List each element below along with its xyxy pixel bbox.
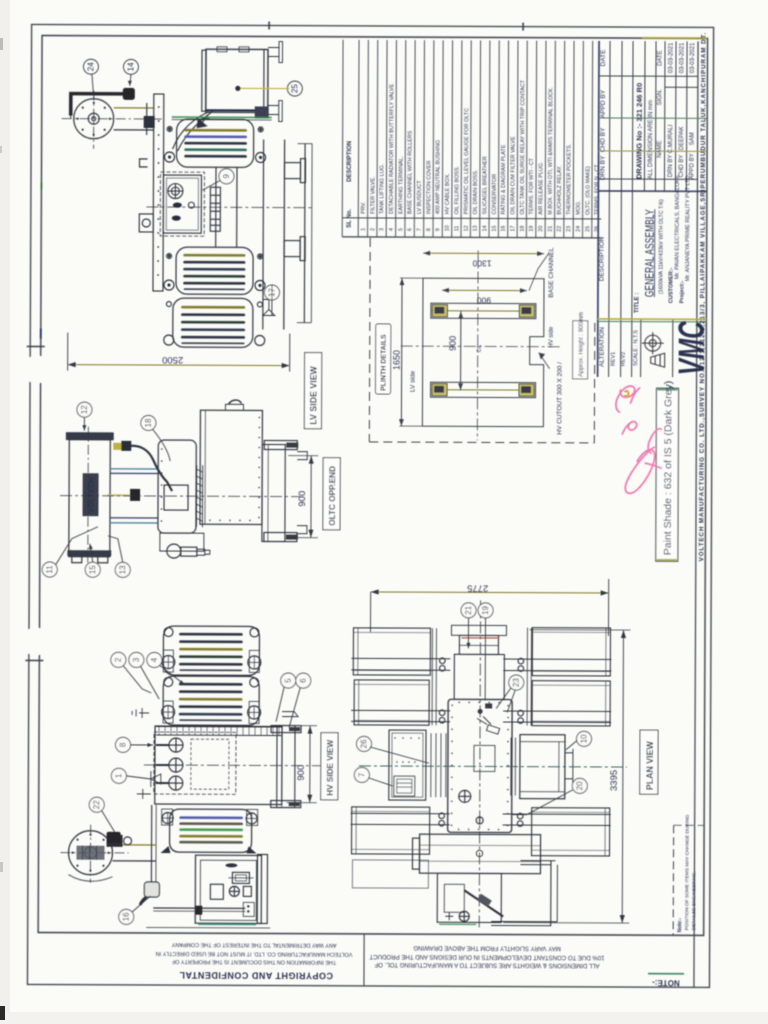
callout 26: [356, 736, 371, 751]
svg-text:Mr. PAVAN ELECTRICALS, BANGALO: Mr. PAVAN ELECTRICALS, BANGALORE.: [675, 173, 681, 280]
svg-text:26: 26: [359, 739, 368, 748]
plan radiator bank right row2: [532, 681, 610, 726]
svg-text:DESCRIPTION: DESCRIPTION: [347, 141, 353, 182]
svg-text:25: 25: [585, 226, 591, 232]
plan tank inner cover plate: [474, 745, 495, 771]
svg-text:900: 900: [296, 765, 307, 781]
svg-text:TANK LIFTING LUG.: TANK LIFTING LUG.: [380, 164, 386, 214]
HV tank top flange: [156, 726, 282, 729]
callout 22: [89, 797, 104, 812]
right channel top flange: [271, 726, 301, 733]
blue tick on left inner border: [40, 329, 42, 339]
plan centerline vertical: [479, 600, 480, 930]
plan tank body: [448, 699, 513, 832]
radiator bank 2 (LV): [176, 247, 253, 294]
plan small circle bottom: [459, 911, 469, 921]
SECTION:OLTCVIEW: [60, 399, 308, 571]
parts row line 1: [367, 40, 370, 237]
svg-text:REV2: REV2: [621, 352, 627, 366]
name/date column separator 2: [599, 117, 707, 119]
plinth dimension texts: [392, 258, 492, 370]
svg-text:DRAWING No :- 321 246 R0: DRAWING No :- 321 246 R0: [634, 83, 643, 179]
OLTC tank feet: [72, 556, 108, 563]
parts row line 5: [404, 40, 407, 237]
name/date column separator sign: [665, 86, 698, 88]
title block row line 4: [632, 41, 633, 377]
parts row line 13: [479, 40, 482, 237]
title section boundary (blue): [598, 190, 706, 192]
dim 900 (HV view): [287, 726, 317, 803]
parts row line 18: [525, 41, 528, 238]
svg-text:15: 15: [492, 225, 498, 231]
green tick on left inner border: [40, 183, 42, 190]
OLTC OPP.END label box: [323, 458, 340, 530]
title block top edge (landscape): [598, 41, 599, 377]
svg-text:SIGN.: SIGN.: [657, 89, 663, 106]
svg-text:7: 7: [357, 772, 366, 777]
parts row line 4: [395, 40, 398, 237]
fold tick left 2: [25, 659, 43, 661]
radiator bank B corner bolts: [164, 678, 173, 687]
svg-text:1300: 1300: [472, 258, 491, 268]
svg-text:26: 26: [594, 226, 600, 232]
svg-text:Note:-: Note:-: [677, 918, 683, 933]
svg-text:DESCRIPTION: DESCRIPTION: [599, 236, 606, 281]
svg-text:Approx. Height : 800mm: Approx. Height : 800mm: [579, 312, 585, 377]
base channel 2 bolt right: [522, 387, 531, 393]
conservator support: [199, 115, 210, 127]
svg-text:16: 16: [501, 226, 507, 232]
base channel 2 bolt left: [435, 386, 444, 392]
svg-text:INSPECTION COVER: INSPECTION COVER: [426, 160, 432, 214]
plan radiator bank right row1: [532, 628, 610, 676]
parts row line 17: [516, 41, 519, 238]
svg-text:LV SIDE VIEW: LV SIDE VIEW: [308, 365, 318, 424]
svg-text:18: 18: [144, 418, 153, 427]
radiator header pipes vertical left: [431, 628, 433, 725]
conservator bottom-right pipe stub: [268, 105, 279, 114]
OLTC box bottom green tint: [439, 923, 476, 925]
plan radiator bank left row1: [353, 628, 430, 675]
parts row line 25: [591, 41, 594, 238]
svg-text:OLTC. (OLG MAKE): OLTC. (OLG MAKE): [585, 166, 591, 215]
callout 18: [141, 415, 156, 430]
plinth dashed boundary bottom: [369, 441, 594, 444]
inner bottom margin line: [38, 932, 703, 935]
svg-text:21: 21: [548, 226, 554, 232]
conservator top clamps: [217, 47, 227, 52]
svg-text:POSITION OF SOME ITEMS MAY CHA: POSITION OF SOME ITEMS MAY CHANGE DURING: [684, 814, 691, 930]
inspection plate on end wall: [164, 485, 188, 510]
base channel 1 inner line: [431, 310, 536, 312]
OLTC tank bottom band: [68, 551, 111, 556]
callout 20: [572, 778, 587, 793]
callout 2: [111, 652, 126, 667]
svg-text:THE INFORMATION ON THIS DOCUME: THE INFORMATION ON THIS DOCUMENT IS THE …: [171, 958, 336, 965]
title block row line 3: [621, 41, 622, 377]
svg-text:DEEPAK: DEEPAK: [679, 126, 685, 150]
callout 4: [147, 652, 162, 667]
base channel 2 inner line: [431, 389, 536, 391]
parts row line 22: [563, 41, 566, 238]
OLTC compartment dashed box: [160, 172, 204, 236]
dim 2775: [370, 578, 608, 636]
radiator bank 1 fins: [186, 130, 246, 156]
svg-text:14: 14: [126, 62, 135, 71]
VOLTECH brand plate on OLTC tank: [83, 474, 98, 516]
LV busduct stub 2: [284, 241, 300, 257]
svg-text:9: 9: [222, 174, 231, 179]
svg-text:20: 20: [538, 226, 544, 232]
cover fitting on plate top: [225, 404, 243, 410]
svg-text:(1600kVA 11kV/433kV WITH OLTC: (1600kVA 11kV/433kV WITH OLTC T/6): [658, 199, 664, 294]
inner border frame: [38, 36, 707, 936]
fold tick left 1: [27, 345, 45, 347]
svg-text:COPYRIGHT AND CONFIDENTAL: COPYRIGHT AND CONFIDENTAL: [179, 970, 333, 981]
svg-text:REV1: REV1: [611, 352, 617, 366]
parts row line 7: [423, 40, 426, 237]
dim 2500: [68, 333, 290, 372]
alteration symbol/logo cell line: [672, 319, 674, 377]
OLTC side column: [153, 94, 164, 291]
svg-text:5: 5: [284, 678, 293, 683]
projection symbol cone: [651, 353, 665, 367]
marshalling box terminal panel: [243, 902, 254, 916]
callout 8: [115, 737, 130, 752]
svg-text:MAY VARY SLIGHTLY FROM THE ABO: MAY VARY SLIGHTLY FROM THE ABOVE DRAWING: [413, 944, 561, 952]
plan radiator bank left row2: [354, 680, 429, 725]
callout 11: [42, 562, 57, 577]
callout 23: [509, 675, 524, 690]
svg-text:CHD BY: CHD BY: [600, 127, 607, 152]
tank flange channel column: [262, 444, 285, 541]
svg-text:CONSERVATOR: CONSERVATOR: [492, 174, 498, 215]
svg-text:HV side: HV side: [549, 326, 555, 348]
svg-text:TERMS. FOR N - CT.: TERMS. FOR N - CT.: [594, 163, 600, 215]
callout 3: [129, 652, 144, 667]
cable box connection lines: [510, 738, 512, 796]
scan edge shading left: [0, 0, 10, 1024]
breather elbow dark: [140, 897, 146, 905]
svg-text:400 AMP NEUTRAL BUSHING: 400 AMP NEUTRAL BUSHING: [435, 140, 441, 214]
plan LV turret box: [454, 654, 504, 699]
fan hub plate: [76, 846, 104, 860]
callout 16: [119, 909, 134, 924]
dim 1650 extension lines: [400, 277, 423, 279]
callout 7: [354, 767, 369, 782]
callout 14: [123, 59, 138, 74]
parts row line 6: [413, 40, 416, 237]
title texts: [634, 172, 691, 314]
radiator bank C (HV, below tank): [170, 809, 252, 852]
parts row line 21: [553, 41, 556, 238]
breather pipe (dark): [71, 94, 123, 116]
centerline yellow segment: [107, 494, 133, 496]
base line under tank: [198, 923, 256, 925]
small valve top left of tank: [132, 708, 149, 718]
callouts HV view: [89, 652, 311, 925]
svg-text:LV BUSDUCT: LV BUSDUCT: [417, 180, 423, 214]
margin separator between copyright and note: [363, 934, 365, 986]
svg-text:10% DUE TO CONSTANT DEVELOPMEN: 10% DUE TO CONSTANT DEVELOPMENTS IN OUR …: [369, 953, 604, 961]
yellow tint segment top border right: [642, 37, 707, 39]
parts row line 2: [376, 40, 379, 237]
white scan blob over left border 2: [21, 627, 49, 655]
svg-text:20: 20: [575, 781, 584, 790]
plan tank bolt dots: [451, 701, 509, 830]
breather down pipe: [150, 805, 152, 882]
conservator top-right pipe stub: [268, 47, 279, 56]
flange top plate: [264, 440, 297, 449]
plan radiator bank right row3: [532, 808, 610, 856]
M box inner detail: [394, 776, 415, 796]
SECTION:PLINTH: [369, 238, 595, 443]
callout 10: [576, 731, 591, 746]
svg-text:TITLE :: TITLE :: [634, 293, 640, 313]
plan radiator bank left row3: [352, 807, 430, 854]
radiator bank B (HV): [163, 676, 259, 725]
LV busduct stub 1: [284, 163, 300, 179]
plan lifting eye: [459, 790, 471, 802]
svg-text:RATING & DIAGRAM PLATE: RATING & DIAGRAM PLATE: [501, 144, 507, 214]
parts row line 20: [544, 41, 547, 238]
OLTC tank centerline: [87, 427, 90, 571]
svg-text:Mr. ANJANEYA PRIME REALITY PVT: Mr. ANJANEYA PRIME REALITY PVT LTD.,: [685, 172, 691, 281]
fan mount to tank: [113, 844, 156, 846]
OLTC drive rails: [110, 468, 158, 470]
svg-text:12: 12: [464, 225, 470, 231]
svg-text:DRN BY: DRN BY: [668, 155, 674, 178]
name/date column separator 4: [598, 178, 697, 180]
parts row line 12: [469, 40, 472, 237]
fan mount lines: [114, 107, 154, 109]
terminal ladder right of OLTC box: [210, 187, 220, 231]
svg-text:SILICAGEL BREATHER: SILICAGEL BREATHER: [482, 156, 488, 214]
drive shaft coupling: [130, 489, 140, 501]
svg-text:11: 11: [454, 226, 460, 232]
parts row line 23: [572, 41, 575, 238]
svg-text:23: 23: [512, 678, 521, 687]
callout 6: [296, 673, 311, 688]
callout 17: [264, 285, 279, 300]
silicagel breather body: [123, 88, 135, 100]
LV busduct trunk: [303, 144, 306, 323]
SECTION:LVVIEW: [61, 41, 313, 348]
fan motor junction box: [107, 835, 123, 847]
HV tank centerline: [144, 764, 329, 767]
svg-text:4: 4: [150, 657, 159, 662]
svg-text:6: 6: [299, 678, 308, 683]
callout 1: [111, 768, 126, 783]
conservator support beam top: [451, 625, 506, 635]
svg-text:22: 22: [557, 226, 563, 232]
svg-text:13: 13: [473, 225, 479, 231]
OLTC tank lid: [66, 433, 113, 440]
approx height box: [573, 321, 588, 379]
scan smudge bottom-left corner: [0, 1006, 5, 1020]
svg-text:4: 4: [389, 228, 395, 231]
svg-text:OIL DRAIN CUM FILTER VALVE: OIL DRAIN CUM FILTER VALVE: [510, 136, 516, 215]
OLTC drive shaft diagonal: [464, 890, 503, 916]
svg-text:24: 24: [86, 62, 95, 71]
position note dashed box: [672, 825, 674, 935]
parts row line 16: [507, 41, 510, 238]
svg-text:900: 900: [297, 491, 308, 507]
tap changer drive mechanism: [160, 533, 204, 551]
svg-text:19: 19: [481, 605, 490, 614]
conservator end plate left: [202, 50, 206, 111]
fan centerline horizontal: [62, 118, 162, 120]
svg-text:OIL DRAIN BOSS.: OIL DRAIN BOSS.: [473, 170, 479, 215]
jacking pad bottom: [297, 526, 307, 534]
svg-text:03-03-2021: 03-03-2021: [690, 42, 696, 73]
parts table sl-no column line: [342, 218, 601, 219]
SECTION:HVVIEW: [60, 626, 329, 929]
fold tick top 2: [522, 23, 524, 31]
svg-text:25: 25: [290, 84, 299, 93]
conservator end cap: [412, 838, 419, 869]
plan small fittings: [476, 817, 483, 824]
svg-text:8: 8: [118, 742, 127, 747]
pipe conservator to tank: [173, 112, 208, 149]
svg-text:BASE CHANNEL WITH ROLLERS: BASE CHANNEL WITH ROLLERS: [408, 130, 414, 214]
OLTC box (plan): [437, 873, 501, 922]
svg-text:03-03-2021: 03-03-2021: [668, 42, 674, 73]
pipe coupling dark: [195, 906, 202, 915]
svg-text:3: 3: [132, 657, 141, 662]
callout 9: [219, 169, 234, 184]
callout 12: [42, 402, 170, 578]
HV cutout leader arrow: [539, 353, 550, 369]
name/date column separator 3: [599, 150, 707, 152]
svg-text:ANY WAY DETRIMENTAL TO THE INT: ANY WAY DETRIMENTAL TO THE INTEREST OF T…: [171, 941, 336, 948]
callout 5: [281, 673, 296, 688]
parts row line 24: [581, 41, 584, 238]
svg-text:12: 12: [80, 405, 89, 414]
HV bushing 2: [169, 758, 183, 772]
svg-text:22: 22: [92, 800, 101, 809]
svg-text:OIL FILLING BOSS.: OIL FILLING BOSS.: [454, 166, 460, 214]
fan blade dots: [77, 102, 111, 136]
svg-text:8: 8: [426, 228, 432, 231]
svg-text:TERMS. FOR WTI - CT: TERMS. FOR WTI - CT: [529, 157, 535, 214]
dim 3395: [503, 630, 630, 924]
base channel 1 end pad right: [519, 305, 534, 317]
svg-text:APPD BY: APPD BY: [689, 153, 695, 179]
svg-text:SAM: SAM: [690, 132, 696, 145]
callout 21: [461, 603, 476, 618]
parts table bottom edge: [342, 237, 601, 238]
plinth centerline vertical: [476, 250, 479, 440]
bolt dots on end wall: [161, 448, 163, 522]
svg-text:ALL DIMENSIONS & WEIGHTS ARE S: ALL DIMENSIONS & WEIGHTS ARE SUBJECT TO …: [374, 961, 599, 969]
title block header texts: [598, 49, 640, 367]
name sign date table texts: [657, 42, 696, 180]
dim 1300 line: [423, 252, 544, 255]
dim 900h line: [442, 289, 527, 291]
radiator bank 1 (LV): [177, 119, 254, 167]
HV bushing turret dashed box: [154, 732, 236, 794]
svg-text:7: 7: [417, 228, 423, 231]
parts row line 9: [441, 40, 444, 237]
copyright margin note (upside down in portrait): [156, 941, 353, 981]
svg-text:15: 15: [88, 565, 97, 574]
radiator bank 3 corner bolts: [166, 302, 171, 307]
bolt dots right edge of plate: [209, 416, 260, 521]
SECTION:PLANVIEW: [350, 600, 627, 931]
svg-text:LV side: LV side: [410, 371, 417, 393]
svg-text:16: 16: [122, 912, 131, 921]
svg-text:C.MURALI: C.MURALI: [668, 124, 674, 153]
conservator tank: [206, 49, 268, 112]
callout 13: [115, 562, 130, 577]
svg-text:CHD BY: CHD BY: [679, 155, 685, 178]
bushing stems: [156, 744, 169, 746]
HV bushing 1: [169, 738, 183, 752]
tank right channel: [277, 726, 295, 808]
svg-text:DETACHABLE RADIATOR WITH BUTTE: DETACHABLE RADIATOR WITH BUTTERFLY VALVE: [389, 83, 396, 214]
svg-text:10: 10: [445, 225, 451, 231]
plate stiffener line: [204, 410, 206, 524]
svg-text:PRISMATIC OIL LEVEL GAUGE FOR: PRISMATIC OIL LEVEL GAUGE FOR OLTC: [464, 108, 470, 214]
svg-text:APPD BY: APPD BY: [600, 89, 607, 118]
company row top (full width): [694, 41, 698, 987]
breather horizontal pipe: [153, 907, 245, 909]
marshalling box OTI gauge: [229, 886, 239, 896]
svg-text:HV CABLE BOX.: HV CABLE BOX.: [445, 173, 451, 214]
earthing valve left of tank: [137, 789, 151, 799]
parts row line 3: [385, 40, 388, 237]
silicagel breather body (HV): [144, 882, 159, 897]
name row line chd: [685, 41, 688, 191]
base channel leader line: [529, 253, 549, 291]
svg-text:900: 900: [477, 295, 491, 305]
svg-text:3: 3: [379, 228, 385, 231]
svg-text:1: 1: [361, 228, 367, 231]
tank right wall (LV): [262, 139, 265, 329]
bottom right oil pipe: [520, 861, 555, 865]
parts row line 11: [460, 40, 463, 237]
marshalling box WTI meter: [232, 872, 249, 883]
surge relay pipe (dark S): [130, 446, 172, 491]
svg-text:23: 23: [566, 226, 572, 232]
projection symbol circle: [642, 332, 665, 367]
radiator bank A corner bolts: [164, 628, 173, 637]
radiator bank 1 corner bolts: [165, 127, 266, 163]
name row line drn: [674, 41, 677, 191]
callout 19: [478, 603, 493, 618]
HV SIDE VIEW label box: [321, 733, 338, 800]
title block row line 2: [609, 41, 610, 377]
svg-text:THERMOMETER POCKETS.: THERMOMETER POCKETS.: [566, 144, 572, 215]
conservator bottom fittings: [255, 106, 269, 118]
conservator right edge double: [263, 49, 265, 112]
parts table left edge: [341, 40, 344, 237]
pipe top fittings: [113, 443, 121, 450]
plinth outline with HV cutout notch: [422, 278, 544, 427]
base channel 1 bolt left: [435, 307, 444, 313]
svg-text:900: 900: [448, 336, 458, 351]
callouts plan view: [354, 602, 592, 815]
M box connection duct: [430, 733, 432, 797]
jacking pad top: [297, 452, 307, 460]
connector pipe bar row3: [351, 813, 611, 825]
conservator center fitting: [476, 850, 482, 856]
svg-text:NAME: NAME: [657, 141, 663, 158]
svg-text:HV CUTOUT 300 X 200 /: HV CUTOUT 300 X 200 /: [556, 362, 563, 435]
green underline of NOTE label: [648, 973, 684, 975]
conservator (plan): [419, 834, 540, 874]
